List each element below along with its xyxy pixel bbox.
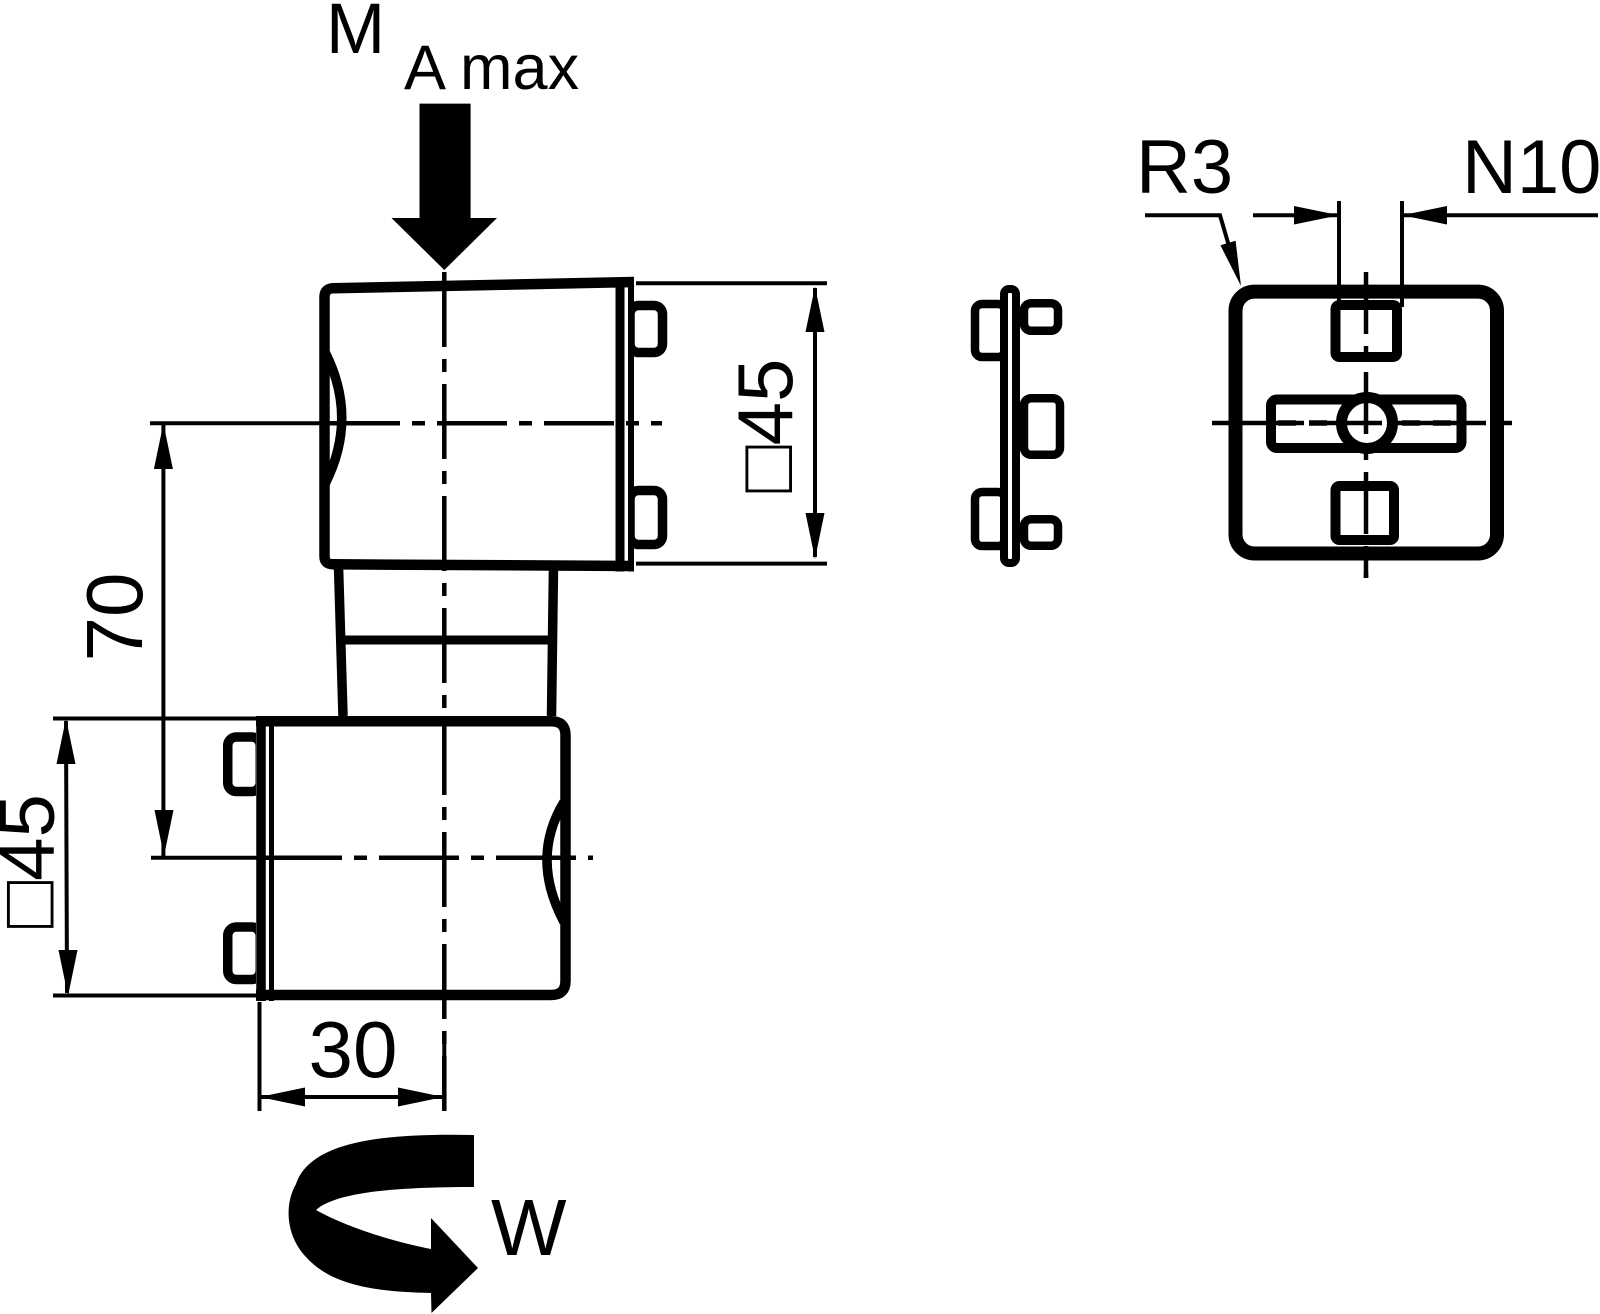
svg-text:R3: R3 <box>1136 125 1233 210</box>
front view hidden dashed line in slot <box>1278 420 1454 426</box>
dimension sq45 right: arrows <box>806 287 825 333</box>
centerline solid segment near 30 dim <box>442 1040 446 1111</box>
top block end cap right: right stroke <box>628 278 634 572</box>
front view top square <box>1336 305 1398 357</box>
dimension 30: dimension line <box>261 1095 442 1099</box>
svg-text:M: M <box>326 0 385 69</box>
front view vertical centerline <box>1364 272 1369 578</box>
R3 leader arrowhead <box>1220 241 1241 286</box>
neck right edge <box>552 566 554 716</box>
front view bottom square <box>1336 486 1395 540</box>
centerline horizontal top block <box>150 421 330 425</box>
side view left flange top <box>975 304 1005 357</box>
top block end cap right: white core <box>616 278 635 572</box>
dimension 30: extension line <box>258 1002 262 1111</box>
top block end cap right: left stroke <box>616 278 625 572</box>
N10 extension lines <box>1337 201 1341 307</box>
svg-text:W: W <box>491 1183 567 1272</box>
top block left tangent arc <box>326 353 342 483</box>
side view plate <box>1004 289 1016 563</box>
bottom block end cap left: left stroke <box>256 716 266 1001</box>
dimension 70: dimension line <box>161 424 165 856</box>
bottom block body outline <box>256 721 566 995</box>
side view left flange bottom <box>975 492 1005 546</box>
top block tab upper right <box>630 306 663 353</box>
dimension sq45 left: dimension line <box>66 721 67 993</box>
bottom block right tangent arc <box>547 802 564 922</box>
N10 dimension line left <box>1253 213 1339 217</box>
dimension sq45 right: extension lines <box>636 281 827 285</box>
bottom block tab upper left <box>228 737 261 792</box>
dimension 70: arrows <box>154 424 173 470</box>
side view right tab top <box>1024 303 1058 331</box>
bottom block end cap left: right stroke <box>269 716 274 1001</box>
top block tab lower right <box>630 491 663 545</box>
dimension 30: arrows <box>260 1088 306 1107</box>
svg-text:□45: □45 <box>0 794 71 928</box>
front view horizontal centerline <box>1212 421 1524 426</box>
svg-text:30: 30 <box>309 1005 398 1094</box>
bottom block tab lower left <box>228 927 261 980</box>
dimension sq45 right: dimension line <box>813 288 817 557</box>
svg-text:□45: □45 <box>721 359 809 493</box>
neck joint line <box>339 636 550 645</box>
rotation arrow W <box>289 1135 478 1313</box>
front view outer square <box>1236 292 1498 554</box>
svg-text:70: 70 <box>70 573 159 662</box>
force arrow M A max <box>392 104 498 270</box>
centerline vertical axis main view <box>442 272 447 1111</box>
neck left edge <box>339 566 344 716</box>
N10 dimension line right <box>1402 213 1598 217</box>
side view right tab bottom <box>1024 519 1058 546</box>
bottom block end cap left: white core <box>256 716 274 1001</box>
svg-text:N10: N10 <box>1462 125 1600 210</box>
N10 arrows <box>1294 206 1339 225</box>
R3 leader line <box>1145 215 1231 253</box>
front view slot <box>1271 400 1462 449</box>
svg-text:A max: A max <box>404 33 579 103</box>
centerline horizontal bottom block <box>151 856 262 860</box>
dimension sq45 left: extension lines <box>53 717 258 721</box>
side view right tab middle <box>1024 398 1060 455</box>
front view circle <box>1342 398 1393 449</box>
dimension sq45 left: arrows <box>57 719 76 765</box>
top block body outline <box>325 282 635 566</box>
